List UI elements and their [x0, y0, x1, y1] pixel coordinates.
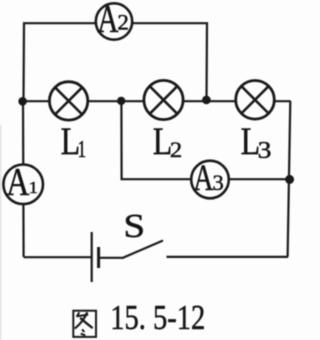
svg-text:3: 3 [258, 137, 272, 164]
svg-text:2: 2 [170, 138, 182, 162]
svg-text:3: 3 [213, 170, 224, 195]
svg-text:A: A [6, 159, 29, 203]
svg-text:1: 1 [29, 178, 38, 197]
svg-text:A: A [97, 0, 118, 41]
svg-text:A: A [193, 158, 214, 199]
svg-text:1: 1 [78, 137, 86, 162]
svg-text:S: S [123, 206, 145, 244]
svg-text:2: 2 [117, 10, 129, 34]
svg-text:15. 5-12: 15. 5-12 [110, 298, 205, 337]
